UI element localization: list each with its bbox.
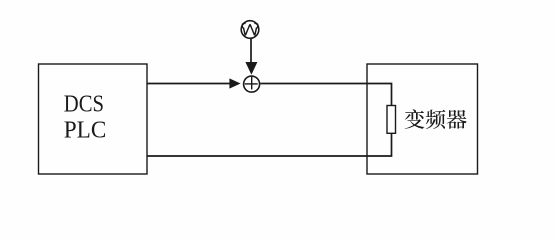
resistor [387, 106, 396, 134]
svg-text:DCS: DCS [64, 90, 104, 117]
svg-text:PLC: PLC [64, 117, 107, 144]
wire resistor to bottom feedback [147, 133, 392, 156]
wire from source down [250, 39, 252, 64]
block DCS/PLC box [39, 64, 148, 174]
plus sign vertical [251, 77, 253, 90]
plus sign horizontal [245, 83, 258, 85]
arrowhead into summing junction (top) [245, 62, 257, 75]
block inverter box [367, 64, 478, 174]
char 变 [405, 109, 425, 129]
arrowhead into summing junction (left) [229, 78, 240, 88]
wire from DCS to summing junction [147, 83, 231, 85]
summing junction circle [244, 76, 260, 92]
char 频 [426, 110, 446, 129]
wire summing junction to inverter [260, 84, 391, 106]
disturbance source circle [241, 21, 259, 39]
label 变频器 [405, 109, 467, 129]
char 器 [447, 110, 467, 129]
waveform W inside source [242, 23, 258, 35]
